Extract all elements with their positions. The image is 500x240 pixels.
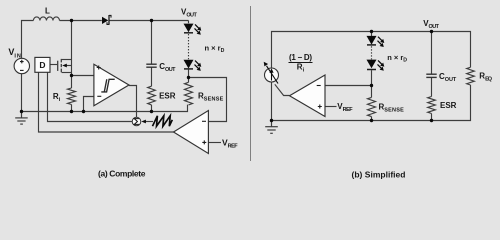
svg-text:ESR: ESR [159, 92, 176, 101]
svg-text:(a) Complete: (a) Complete [98, 168, 146, 178]
svg-text:L: L [45, 7, 50, 16]
svg-text:(1 − D): (1 − D) [289, 53, 312, 62]
svg-text:D: D [39, 60, 45, 70]
svg-text:ESR: ESR [440, 101, 457, 110]
svg-text:(b) Simplified: (b) Simplified [352, 170, 406, 180]
